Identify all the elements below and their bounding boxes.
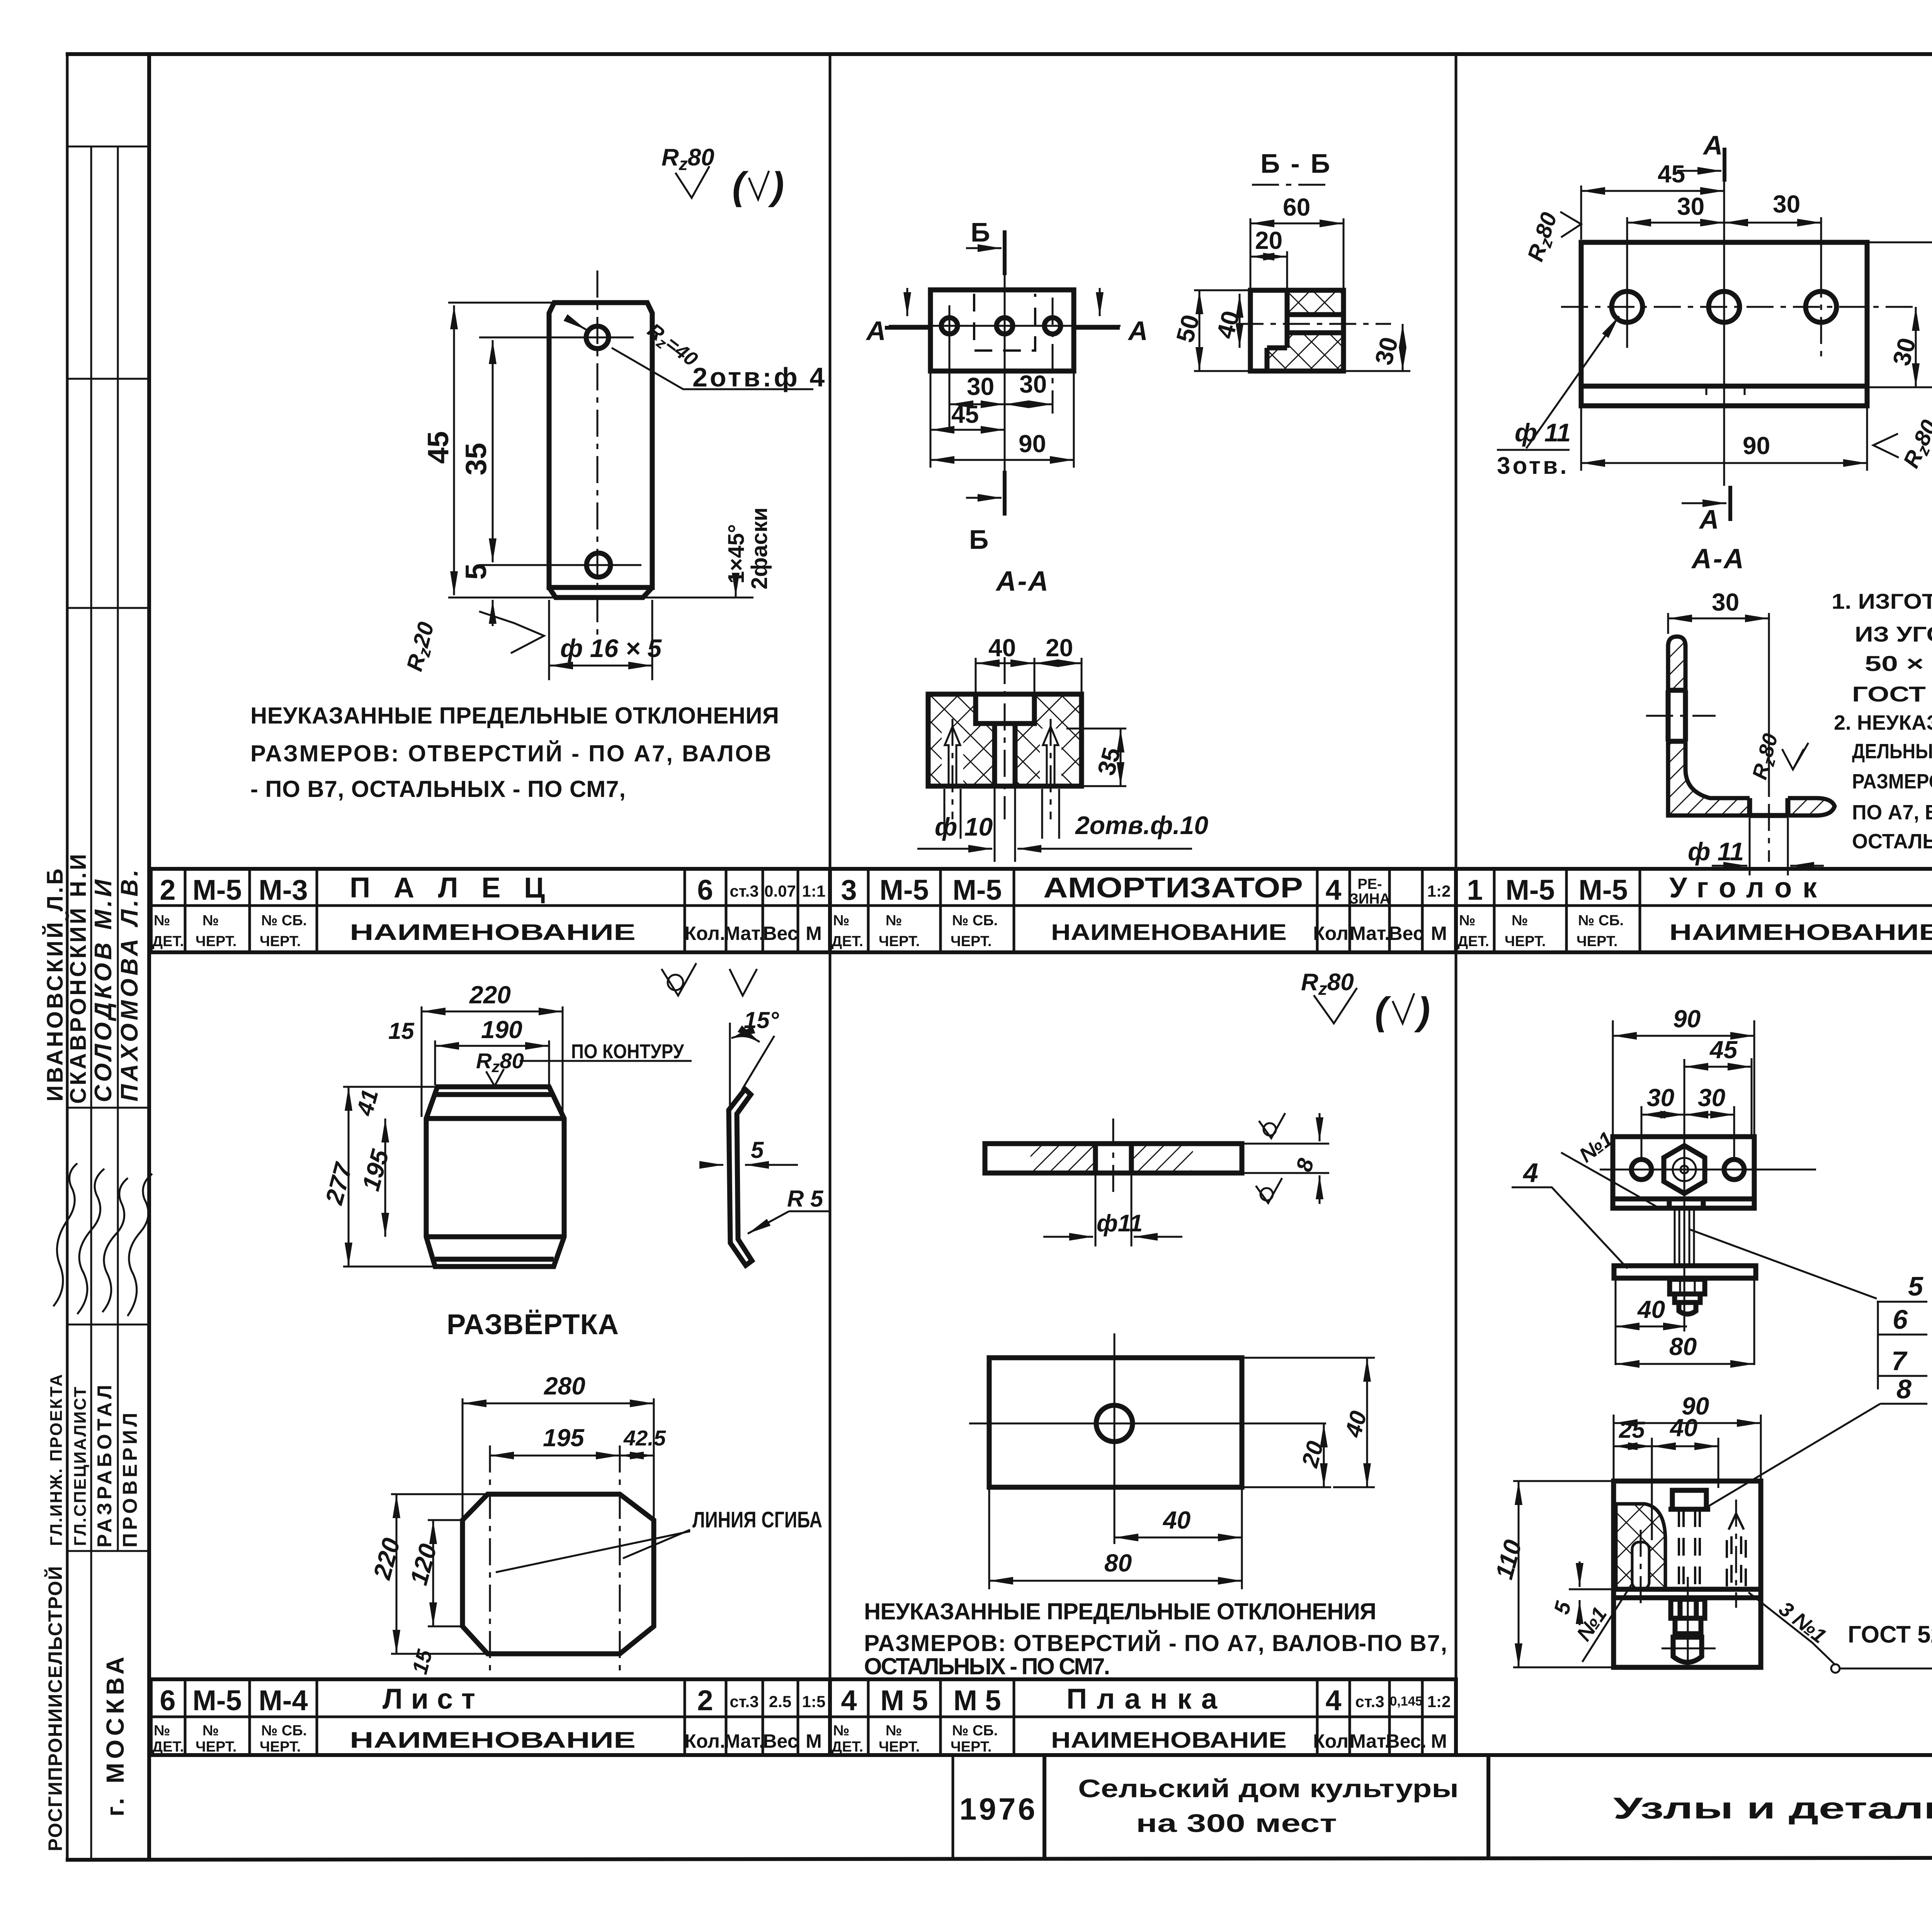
dim 220 left (396, 1494, 398, 1654)
plan horizontal centerline (889, 325, 1121, 327)
PANEL 5 (320, 963, 829, 1679)
margin horizontal divider 1 (67, 146, 149, 148)
A-A white top slot (976, 692, 1034, 724)
section B mark bottom (1003, 471, 1007, 516)
hole top (586, 326, 609, 349)
surface symbol above (1259, 1113, 1285, 1138)
strip panel2 row2 headers (832, 913, 1447, 950)
dim 280 (463, 1403, 654, 1405)
A-A dim 40 (976, 662, 1034, 664)
svg-text:40: 40 (1669, 1414, 1697, 1442)
svg-text:2фаски: 2фаски (747, 507, 772, 589)
surface symbol below (1256, 1178, 1282, 1203)
lower box outline (1614, 1481, 1761, 1667)
bend line left (489, 1445, 491, 1679)
svg-text:М-5: М-5 (879, 874, 929, 906)
svg-text:Сельский дом культуры: Сельский дом культуры (1078, 1774, 1459, 1803)
svg-text:№: № (202, 913, 219, 929)
sgib leader 1 (496, 1531, 690, 1572)
A-A white left pin slot (942, 729, 963, 786)
svg-text:Вес: Вес (763, 1730, 798, 1752)
dimension 35 line (492, 340, 494, 562)
svg-text:Rz20: Rz20 (402, 620, 442, 675)
section A mark right (1075, 326, 1120, 330)
svg-text:А - А: А - А (995, 566, 1048, 597)
svg-text:Б - Б: Б - Б (1260, 148, 1330, 179)
svg-text:50 × 50× 5: 50 × 50× 5 (1865, 651, 1932, 676)
svg-text:РЕ-: РЕ- (1357, 876, 1382, 892)
svg-text:45: 45 (1709, 1036, 1738, 1064)
dim 20 right (1323, 1423, 1325, 1487)
dim 45 (930, 429, 1005, 431)
A-A top slot edges (976, 694, 1034, 724)
svg-text:Rz80: Rz80 (1748, 731, 1785, 783)
svg-text:Б: Б (969, 524, 988, 555)
svg-text:А: А (1128, 316, 1148, 346)
hole right vertical centerline (1052, 298, 1054, 414)
A-A dim 35 (1120, 729, 1122, 786)
dim 80 bottom (989, 1580, 1242, 1582)
leader to callout stack (1689, 1229, 1877, 1299)
svg-text:ЧЕРТ.: ЧЕРТ. (196, 933, 236, 950)
svg-text:№ СБ.: № СБ. (952, 913, 998, 929)
hole 2 (1709, 291, 1740, 322)
nut below plate (1669, 1199, 1703, 1208)
svg-text:№ СБ.: № СБ. (261, 913, 307, 929)
svg-text:ЧЕРТ.: ЧЕРТ. (951, 933, 992, 950)
bolt shaft (1675, 1208, 1694, 1266)
svg-text:195: 195 (357, 1146, 395, 1193)
B-B internal step vertical (1285, 290, 1290, 348)
dome centerline (1662, 1648, 1716, 1650)
svg-text:80: 80 (1669, 1333, 1697, 1360)
svg-text:А - А: А - А (1691, 543, 1744, 574)
section B mark top (1003, 230, 1007, 275)
octagon development (463, 1494, 654, 1654)
svg-text:90: 90 (1019, 430, 1046, 458)
svg-text:ЗИНА: ЗИНА (1349, 891, 1390, 907)
signature squiggle 3 (102, 1178, 128, 1312)
svg-text:5: 5 (1908, 1271, 1923, 1301)
svg-text:на 300 мест: на 300 мест (1136, 1809, 1337, 1837)
leader to hole (1526, 316, 1619, 448)
svg-text:ЧЕРТ.: ЧЕРТ. (260, 933, 301, 950)
hole bottom centerline (479, 564, 641, 566)
bend tick marks (1706, 386, 1708, 395)
svg-text:30: 30 (1647, 1084, 1674, 1112)
B-B internal step horizontal (1267, 346, 1287, 351)
svg-text:2: 2 (697, 1684, 713, 1716)
B-B dim 30 (1402, 324, 1404, 371)
svg-text:№: № (833, 913, 849, 929)
svg-text:30: 30 (967, 373, 994, 400)
LEFT MARGIN (43, 54, 152, 1860)
svg-text:РАЗРАБОТАЛ: РАЗРАБОТАЛ (94, 1382, 116, 1548)
svg-text:А: А (1699, 504, 1719, 535)
svg-text:М-5: М-5 (192, 874, 241, 906)
svg-text:№: № (202, 1723, 219, 1739)
strip panel6 row2 headers (832, 1723, 1447, 1755)
dim 80 bottom assembly (1616, 1363, 1754, 1365)
B-B dim 60 (1250, 223, 1344, 225)
bolt centerline vertical (1684, 1059, 1685, 1331)
bolt tip dome (1679, 1302, 1696, 1314)
svg-text:40: 40 (988, 634, 1016, 662)
svg-text:ст.3: ст.3 (1355, 1692, 1384, 1711)
plate bend line (1581, 384, 1867, 389)
svg-text:Rz80: Rz80 (1301, 969, 1354, 999)
angle hole gap vertical leg (1666, 690, 1688, 741)
dim 40 bottom assembly (1616, 1326, 1687, 1328)
svg-text:80: 80 (1104, 1549, 1132, 1577)
dim phi16x5 line (549, 665, 652, 667)
section A mark left (885, 326, 929, 330)
leader line (520, 1060, 692, 1062)
svg-text:Rz80: Rz80 (1898, 416, 1932, 473)
signature squiggle 1 (53, 1163, 77, 1306)
svg-text:20: 20 (1046, 634, 1073, 662)
top assembly dim 30 30 (1641, 1114, 1684, 1116)
dim 220 (422, 1011, 563, 1013)
svg-text:ЧЕРТ.: ЧЕРТ. (951, 1739, 992, 1755)
svg-text:Кол.: Кол. (1313, 923, 1354, 944)
hole left vertical centerline (949, 305, 951, 433)
svg-text:М-4: М-4 (259, 1684, 308, 1716)
B-B hatched block corner (1267, 348, 1287, 371)
plate hole right (1724, 1159, 1744, 1180)
svg-text:№: № (154, 913, 170, 929)
plan view outline (989, 1358, 1242, 1487)
plan vertical centerline (1114, 1333, 1116, 1544)
svg-text:30: 30 (1712, 588, 1739, 616)
center section line vertical (1004, 275, 1006, 471)
svg-text:ф 11: ф 11 (1688, 837, 1744, 866)
svg-text:(: ( (732, 164, 749, 208)
PANEL 1 (250, 144, 827, 802)
svg-text:1:5: 1:5 (802, 1692, 826, 1711)
dim 120 left (432, 1520, 434, 1626)
svg-text:60: 60 (1283, 193, 1310, 221)
angle hole centerline vertical (1768, 758, 1770, 862)
B-B hatched block upper (1287, 290, 1344, 315)
washer under nut (1675, 1294, 1700, 1302)
signature squiggle 4 (128, 1174, 152, 1316)
plate hole left (1631, 1159, 1651, 1180)
PANEL 7 (1490, 1005, 1932, 1673)
holes centerline (1561, 306, 1917, 308)
svg-text:1×45°: 1×45° (724, 524, 749, 584)
svg-text:8: 8 (1896, 1374, 1912, 1404)
svg-text:15: 15 (388, 1018, 415, 1044)
chamfer dim line (735, 583, 737, 597)
svg-text:): ) (768, 164, 784, 208)
panel divider vertical 2 (1455, 54, 1458, 1755)
svg-text:Мат.: Мат. (724, 923, 764, 944)
svg-text:ПАЛЕЦ: ПАЛЕЦ (350, 872, 560, 904)
svg-text:ДЕТ.: ДЕТ. (832, 933, 863, 950)
svg-text:1:1: 1:1 (802, 882, 826, 900)
strip panel5 List frame (151, 1679, 830, 1755)
svg-text:277: 277 (320, 1159, 358, 1208)
svg-text:Мат.: Мат. (1350, 1730, 1390, 1752)
svg-text:Вес.: Вес. (1386, 1730, 1427, 1752)
svg-text:М: М (806, 1730, 822, 1752)
right pin dashed (1727, 1514, 1746, 1589)
amortizator plan outline (930, 290, 1074, 371)
B-B dim 50 (1199, 290, 1201, 371)
svg-text:ЧЕРТ.: ЧЕРТ. (260, 1739, 301, 1755)
svg-text:№: № (154, 1723, 170, 1739)
svg-text:М: М (1431, 1730, 1447, 1752)
B-B dim 40 (1239, 294, 1241, 348)
svg-text:ОСТАЛЬНЫХ - ПО СМ7.: ОСТАЛЬНЫХ - ПО СМ7. (864, 1653, 1110, 1679)
svg-text:30: 30 (1369, 334, 1403, 368)
svg-text:РАЗМЕРОВ:ОТВЕРСТИЙ: РАЗМЕРОВ:ОТВЕРСТИЙ (1852, 770, 1932, 793)
strip panel2 Amortizator frame (830, 869, 1456, 952)
svg-text:№: № (1512, 913, 1528, 929)
svg-text:30: 30 (1698, 1084, 1725, 1112)
stamp cell divider year right (1043, 1755, 1046, 1859)
svg-text:2. НЕУКАЗАННЫЕ ПРЕ-: 2. НЕУКАЗАННЫЕ ПРЕ- (1834, 711, 1932, 734)
svg-text:90: 90 (1673, 1005, 1701, 1033)
svg-text:1976: 1976 (959, 1792, 1037, 1826)
dim 110 (1518, 1481, 1520, 1667)
svg-text:25: 25 (1619, 1417, 1645, 1443)
dim 45 (1581, 190, 1724, 192)
extension line bottom (448, 597, 753, 599)
svg-text:ДЕТ.: ДЕТ. (152, 933, 184, 950)
angle hole gap bottom leg (1750, 796, 1788, 818)
barrel seam bottom (426, 1234, 564, 1239)
dim 40 bottom (1114, 1537, 1242, 1539)
svg-text:М: М (806, 923, 822, 944)
bend line right (619, 1445, 621, 1679)
strip panel5 row2 headers (152, 1723, 822, 1755)
svg-text:1:2: 1:2 (1427, 882, 1451, 900)
lower assembly dim 25 (1614, 1445, 1652, 1447)
bolt flange line (1668, 1507, 1710, 1512)
svg-text:190: 190 (481, 1016, 522, 1044)
svg-text:40: 40 (1162, 1506, 1190, 1534)
svg-text:ф11: ф11 (1097, 1210, 1143, 1237)
bottom nut hex (1671, 1599, 1705, 1618)
BOTTOM STAMP (151, 1755, 1932, 1885)
rubber block (1616, 1504, 1665, 1589)
top bolt head (1672, 1490, 1706, 1509)
margin column line a (90, 146, 92, 1859)
side view hatch left (1031, 1144, 1096, 1173)
svg-text:42.5: 42.5 (623, 1426, 666, 1450)
signature squiggle 2 (77, 1169, 104, 1314)
right pin centerline (1735, 1500, 1737, 1608)
dim 90 (1581, 462, 1867, 464)
strip panel3 Ugolok frame (1456, 869, 1932, 952)
svg-text:ф 16 × 5: ф 16 × 5 (560, 634, 662, 662)
dim 195 (490, 1455, 620, 1457)
stamp cell divider project name (1486, 1755, 1490, 1859)
svg-text:Мат.: Мат. (724, 1730, 764, 1752)
dim 30 left (949, 403, 1005, 405)
svg-text:М: М (1431, 923, 1447, 944)
extension line top (448, 302, 552, 304)
bar centerline (1112, 1119, 1114, 1196)
margin outer left border (66, 54, 69, 1860)
svg-text:5: 5 (1549, 1599, 1576, 1617)
planka bar (1614, 1266, 1756, 1278)
svg-text:Rz80: Rz80 (662, 144, 714, 174)
svg-text:1: 1 (1467, 874, 1483, 906)
svg-text:Rz80: Rz80 (1523, 209, 1565, 265)
TITLE STRIPS (151, 869, 1932, 1755)
svg-text:8: 8 (1291, 1156, 1319, 1175)
svg-text:Уголок: Уголок (1669, 872, 1832, 904)
svg-text:3отв.: 3отв. (1497, 453, 1569, 479)
B-B dim 20 (1250, 256, 1287, 258)
svg-text:4: 4 (841, 1684, 857, 1716)
dim 42.5 (620, 1455, 654, 1457)
svg-text:ПО КОНТУРУ: ПО КОНТУРУ (571, 1040, 684, 1063)
PANEL 6 (864, 969, 1447, 1679)
svg-text:(: ( (1375, 989, 1391, 1033)
svg-text:СОЛОДКОВ М.И: СОЛОДКОВ М.И (90, 877, 117, 1102)
svg-text:СКАВРОНСКИЙ Н.И: СКАВРОНСКИЙ Н.И (66, 852, 91, 1104)
svg-text:4: 4 (1325, 1684, 1341, 1716)
svg-text:Планка: Планка (1066, 1683, 1233, 1715)
dim 40 right (1366, 1358, 1368, 1487)
dim 30 left (1627, 222, 1724, 224)
svg-text:НАИМЕНОВАНИЕ: НАИМЕНОВАНИЕ (1669, 920, 1932, 945)
dim 30 angle (1668, 618, 1769, 620)
svg-text:М-5: М-5 (952, 874, 1002, 906)
top plate inner line (1613, 1197, 1754, 1202)
svg-text:М 5: М 5 (880, 1684, 928, 1716)
svg-text:А: А (1702, 130, 1723, 160)
angle hole centerline horizontal (1646, 715, 1716, 717)
plate vertical centerline (597, 271, 599, 636)
frame left inner thick border (147, 54, 151, 1860)
phi11 dim arrows (1095, 1175, 1097, 1246)
A-A dim 20 (1034, 662, 1082, 664)
plate outline (549, 303, 652, 587)
A-A section hatch (928, 694, 1082, 786)
svg-text:30: 30 (1677, 192, 1704, 220)
svg-text:РАЗВЁРТКА: РАЗВЁРТКА (447, 1308, 631, 1340)
dimension 45 line (453, 305, 455, 595)
svg-text:М-5: М-5 (1578, 874, 1628, 906)
svg-text:М-5: М-5 (192, 1684, 241, 1716)
svg-text:ПО А7, ВАЛОВ-ПО В7,: ПО А7, ВАЛОВ-ПО В7, (1852, 801, 1932, 824)
svg-text:Вес: Вес (763, 923, 798, 944)
plan hole (1096, 1405, 1133, 1442)
svg-text:№: № (886, 1723, 902, 1739)
panel divider vertical 1 (829, 54, 832, 1755)
svg-text:№: № (833, 1723, 849, 1739)
strip panel2 row1 values (841, 872, 1451, 907)
svg-text:№ СБ.: № СБ. (952, 1723, 998, 1739)
svg-text:1:2: 1:2 (1427, 1692, 1451, 1711)
svg-text:ГЛ.СПЕЦИАЛИСТ: ГЛ.СПЕЦИАЛИСТ (71, 1386, 90, 1546)
dim 30 right (1005, 403, 1053, 405)
margin column line b (117, 146, 119, 1551)
Rz20 arrow (479, 611, 544, 653)
svg-text:НАИМЕНОВАНИЕ: НАИМЕНОВАНИЕ (1051, 920, 1287, 945)
plate holes centerline (1600, 1169, 1816, 1171)
dim extension left (930, 373, 932, 468)
barrel development outline (426, 1087, 564, 1267)
svg-text:№ СБ.: № СБ. (1578, 913, 1624, 929)
strip panel3 row2 headers (1458, 913, 1932, 950)
Rz80 checkmark (1314, 988, 1357, 1023)
dim 30 right (1724, 222, 1821, 224)
dim 30 inner right (1915, 307, 1917, 387)
strip panel6 row1 values (841, 1683, 1451, 1716)
hole edges in bar (1093, 1144, 1098, 1173)
B-B hatched block lower (1287, 333, 1344, 371)
B-B slot centerline (1236, 323, 1391, 325)
svg-text:РОСГИПРОНИИСЕЛЬСТРОЙ: РОСГИПРОНИИСЕЛЬСТРОЙ (44, 1565, 66, 1851)
svg-text:ф 11: ф 11 (1515, 418, 1571, 447)
svg-text:М-5: М-5 (1505, 874, 1554, 906)
A-A outline (928, 694, 1082, 786)
svg-text:ИВАНОВСКИЙ Л.Б: ИВАНОВСКИЙ Л.Б (43, 866, 68, 1102)
svg-text:ДЕТ.: ДЕТ. (152, 1739, 184, 1755)
plain check symbol (730, 969, 757, 996)
svg-text:220: 220 (469, 981, 511, 1009)
A-A white center slot (995, 724, 1015, 786)
svg-text:НЕУКАЗАННЫЕ ПРЕДЕЛЬНЫЕ ОТКЛОНЕ: НЕУКАЗАННЫЕ ПРЕДЕЛЬНЫЕ ОТКЛОНЕНИЯ (864, 1599, 1376, 1624)
svg-text:2: 2 (160, 874, 175, 906)
plate line 1 (1614, 1587, 1761, 1592)
svg-text:М-3: М-3 (259, 874, 308, 906)
pin slot in rubber (1632, 1542, 1649, 1589)
margin horizontal divider 6 (67, 1550, 149, 1552)
svg-text:3: 3 (841, 874, 857, 906)
svg-text:15°: 15° (744, 1007, 779, 1033)
svg-text:4: 4 (1522, 1158, 1538, 1188)
hole vertical centerlines (1626, 271, 1628, 348)
svg-text:ДЕЛЬНЫЕ ОТКЛОНЕНИЯ: ДЕЛЬНЫЕ ОТКЛОНЕНИЯ (1852, 740, 1932, 763)
PANEL 3 (1497, 130, 1932, 875)
svg-text:15: 15 (407, 1647, 437, 1677)
svg-text:45: 45 (951, 400, 979, 428)
plan hole right (1044, 318, 1061, 334)
svg-text:20: 20 (1255, 226, 1282, 254)
svg-text:г. МОСКВА: г. МОСКВА (101, 1653, 129, 1817)
hole 1 (1612, 291, 1643, 322)
svg-text:№: № (886, 913, 902, 929)
stamp cell divider year left (952, 1755, 954, 1859)
svg-text:РАЗМЕРОВ: ОТВЕРСТИЙ - ПО А7,: РАЗМЕРОВ: ОТВЕРСТИЙ - ПО А7, ВАЛОВ (250, 741, 771, 766)
svg-text:3 №1: 3 №1 (1775, 1597, 1831, 1648)
svg-text:1. ИЗГОТОВИТЬ: 1. ИЗГОТОВИТЬ (1832, 589, 1932, 613)
svg-text:90: 90 (1743, 432, 1770, 460)
svg-text:2.5: 2.5 (769, 1692, 791, 1711)
svg-text:НАИМЕНОВАНИЕ: НАИМЕНОВАНИЕ (350, 1728, 636, 1753)
plan hole center (997, 318, 1013, 334)
top plate outline (1613, 1137, 1754, 1208)
dim 277 (348, 1087, 350, 1267)
svg-text:ЛИНИЯ СГИБА: ЛИНИЯ СГИБА (692, 1507, 822, 1532)
strip panel5 row1 values (160, 1683, 825, 1716)
hole top centerline (479, 337, 634, 339)
svg-text:Б: Б (971, 217, 990, 247)
svg-text:Rz80: Rz80 (476, 1049, 524, 1076)
svg-text:Вес: Вес (1388, 923, 1423, 944)
barrel bottom inner line (435, 1257, 554, 1262)
svg-text:5: 5 (751, 1137, 764, 1163)
svg-text:ЧЕРТ.: ЧЕРТ. (196, 1739, 236, 1755)
svg-text:ДЕТ.: ДЕТ. (832, 1739, 863, 1755)
